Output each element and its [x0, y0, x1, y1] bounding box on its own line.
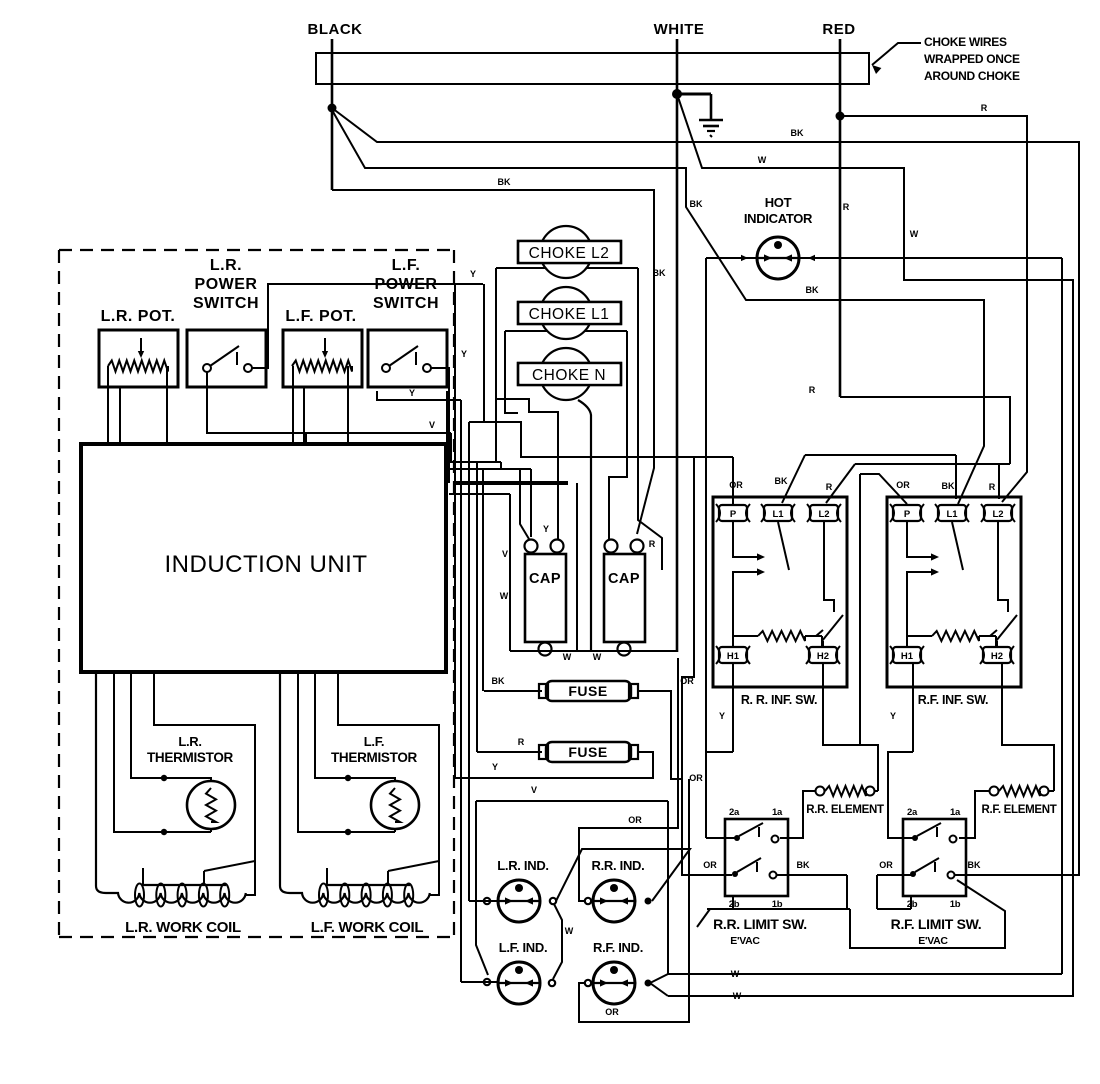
svg-text:FUSE: FUSE	[568, 744, 607, 760]
svg-text:Y: Y	[543, 524, 549, 534]
svg-text:W: W	[731, 969, 740, 979]
svg-text:FUSE: FUSE	[568, 683, 607, 699]
svg-text:OR: OR	[729, 480, 743, 490]
svg-text:R: R	[843, 202, 850, 212]
svg-text:R: R	[981, 103, 988, 113]
svg-text:BK: BK	[492, 676, 505, 686]
svg-text:CHOKE N: CHOKE N	[532, 367, 606, 384]
svg-text:CHOKE L1: CHOKE L1	[529, 306, 610, 323]
svg-text:R.F. IND.: R.F. IND.	[593, 940, 643, 955]
svg-text:BK: BK	[797, 860, 810, 870]
svg-text:BK: BK	[791, 128, 804, 138]
svg-text:Y: Y	[409, 388, 415, 398]
svg-text:CHOKE WIRES: CHOKE WIRES	[924, 35, 1007, 49]
svg-text:V: V	[531, 785, 537, 795]
svg-text:L.F. POT.: L.F. POT.	[285, 308, 356, 325]
svg-text:Y: Y	[890, 711, 896, 721]
svg-text:1a: 1a	[772, 807, 783, 818]
svg-text:OR: OR	[896, 480, 910, 490]
svg-text:SWITCH: SWITCH	[373, 295, 439, 312]
svg-text:THERMISTOR: THERMISTOR	[331, 750, 418, 765]
svg-text:OR: OR	[689, 773, 703, 783]
svg-text:L.F.: L.F.	[364, 734, 384, 749]
svg-text:L.F.: L.F.	[392, 257, 421, 274]
svg-text:BK: BK	[498, 177, 511, 187]
svg-text:RED: RED	[822, 21, 855, 38]
svg-text:L.F. WORK COIL: L.F. WORK COIL	[311, 919, 424, 936]
svg-text:W: W	[593, 652, 602, 662]
svg-text:BK: BK	[653, 268, 666, 278]
svg-text:OR: OR	[879, 860, 893, 870]
svg-text:BK: BK	[942, 481, 955, 491]
svg-text:Y: Y	[492, 762, 498, 772]
svg-text:Y: Y	[719, 711, 725, 721]
svg-text:2a: 2a	[729, 807, 740, 818]
svg-text:L2: L2	[992, 509, 1003, 520]
svg-text:L1: L1	[946, 509, 958, 520]
svg-text:INDICATOR: INDICATOR	[744, 211, 813, 226]
svg-text:POWER: POWER	[375, 276, 438, 293]
svg-text:CAP: CAP	[608, 571, 640, 587]
svg-text:R. R. INF. SW.: R. R. INF. SW.	[741, 693, 817, 707]
svg-text:H2: H2	[817, 651, 829, 662]
svg-text:W: W	[565, 926, 574, 936]
svg-text:CAP: CAP	[529, 571, 561, 587]
svg-text:INDUCTION UNIT: INDUCTION UNIT	[165, 551, 368, 578]
svg-text:BK: BK	[775, 476, 788, 486]
svg-text:P: P	[730, 509, 737, 520]
svg-text:AROUND CHOKE: AROUND CHOKE	[924, 69, 1020, 83]
svg-text:R.R. ELEMENT: R.R. ELEMENT	[806, 804, 884, 816]
svg-text:W: W	[500, 591, 509, 601]
svg-text:POWER: POWER	[195, 276, 258, 293]
svg-text:P: P	[904, 509, 911, 520]
svg-text:H1: H1	[901, 651, 914, 662]
svg-text:R.F. ELEMENT: R.F. ELEMENT	[982, 804, 1057, 816]
svg-text:OR: OR	[703, 860, 717, 870]
svg-text:V: V	[502, 549, 508, 559]
svg-text:H2: H2	[991, 651, 1003, 662]
svg-text:R.R. IND.: R.R. IND.	[592, 858, 645, 873]
svg-text:HOT: HOT	[765, 195, 792, 210]
svg-text:L2: L2	[818, 509, 829, 520]
svg-text:R: R	[826, 482, 833, 492]
svg-text:R: R	[518, 737, 525, 747]
svg-text:L.R.: L.R.	[210, 257, 242, 274]
svg-text:L.R. WORK COIL: L.R. WORK COIL	[125, 919, 241, 936]
svg-text:V: V	[429, 420, 435, 430]
svg-text:R: R	[989, 482, 996, 492]
svg-text:L1: L1	[772, 509, 784, 520]
svg-text:2a: 2a	[907, 807, 918, 818]
svg-text:W: W	[563, 652, 572, 662]
svg-text:CHOKE L2: CHOKE L2	[529, 245, 610, 262]
svg-text:H1: H1	[727, 651, 740, 662]
svg-text:BK: BK	[806, 285, 819, 295]
svg-text:OR: OR	[628, 815, 642, 825]
svg-text:1b: 1b	[950, 899, 961, 910]
svg-text:E'VAC: E'VAC	[730, 935, 760, 947]
svg-text:E'VAC: E'VAC	[918, 935, 948, 947]
svg-text:BLACK: BLACK	[308, 21, 363, 38]
svg-text:W: W	[758, 155, 767, 165]
svg-text:L.R. IND.: L.R. IND.	[497, 858, 548, 873]
svg-text:SWITCH: SWITCH	[193, 295, 259, 312]
svg-text:R: R	[649, 539, 656, 549]
svg-text:L.F. IND.: L.F. IND.	[499, 940, 548, 955]
svg-text:L.R.: L.R.	[178, 734, 201, 749]
svg-text:BK: BK	[690, 199, 703, 209]
svg-text:Y: Y	[470, 269, 476, 279]
svg-text:Y: Y	[461, 349, 467, 359]
svg-text:R.F. INF. SW.: R.F. INF. SW.	[918, 693, 988, 707]
svg-text:W: W	[910, 229, 919, 239]
svg-text:W: W	[733, 991, 742, 1001]
svg-text:L.R. POT.: L.R. POT.	[101, 308, 176, 325]
svg-text:WRAPPED ONCE: WRAPPED ONCE	[924, 52, 1020, 66]
svg-text:WHITE: WHITE	[654, 21, 705, 38]
svg-text:THERMISTOR: THERMISTOR	[147, 750, 234, 765]
svg-text:R.F. LIMIT SW.: R.F. LIMIT SW.	[891, 916, 982, 932]
svg-text:BK: BK	[968, 860, 981, 870]
svg-text:R.R. LIMIT SW.: R.R. LIMIT SW.	[713, 916, 807, 932]
svg-text:OR: OR	[605, 1007, 619, 1017]
svg-text:1a: 1a	[950, 807, 961, 818]
svg-text:R: R	[809, 385, 816, 395]
